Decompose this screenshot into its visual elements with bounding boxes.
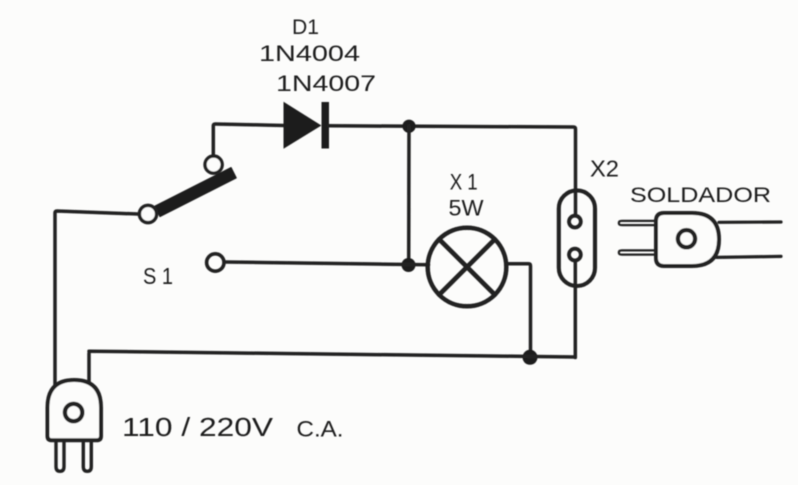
- wire mains-left vertical and horizontal to S1 pole: [55, 211, 138, 400]
- soldador plug face hole: [678, 230, 695, 247]
- svg-text:X 1: X 1: [450, 170, 478, 195]
- svg-text:SOLDADOR: SOLDADOR: [630, 184, 771, 207]
- switch S1 pole contact circle: [139, 205, 156, 222]
- X2 socket body: [559, 190, 595, 286]
- soldador cord top line: [719, 220, 781, 224]
- switch S1 throw contact circle (lower): [207, 254, 224, 271]
- svg-text:1N4007: 1N4007: [276, 71, 376, 96]
- svg-text:X2: X2: [590, 156, 619, 182]
- soldador plug body: [656, 213, 719, 266]
- X2 bottom hole: [569, 249, 581, 261]
- node C (junction dot bottom rail): [523, 350, 538, 365]
- wire node A down to node B: [407, 126, 411, 264]
- soldador plug bottom prong: [619, 250, 656, 254]
- lamp X1 cross: [439, 239, 495, 294]
- node A (junction dot top rail): [402, 120, 415, 133]
- diode D1: [285, 102, 330, 149]
- lamp X1 circle: [428, 228, 507, 307]
- svg-text:110 / 220V: 110 / 220V: [122, 414, 273, 442]
- svg-text:D1: D1: [292, 16, 319, 39]
- node B (junction dot at lamp input): [402, 258, 416, 272]
- plug 110/220 right prong: [83, 441, 91, 472]
- wire X2 bottom hole down to bottom rail: [574, 261, 578, 358]
- wire diode cathode to top-right corner and down to X2 top hole: [329, 126, 576, 216]
- wire mains-right vertical into plug: [89, 351, 91, 395]
- svg-text:5W: 5W: [449, 195, 484, 220]
- plug 110/220 left prong: [56, 441, 64, 472]
- soldador cord bottom line: [717, 256, 782, 257]
- switch S1 blade (closed arm): [155, 168, 236, 217]
- svg-text:S 1: S 1: [143, 263, 173, 289]
- plug 110/220 face hole: [65, 404, 82, 421]
- switch S1 top contact circle: [205, 156, 222, 173]
- wire lamp X1 right side down to node C: [506, 264, 531, 357]
- svg-text:1N4004: 1N4004: [259, 41, 360, 66]
- wire S1 top contact up to top rail: [213, 124, 284, 156]
- plug 110/220 body: [48, 380, 102, 440]
- wire S1 throw contact to lamp X1: [226, 262, 429, 265]
- soldador plug top prong: [619, 221, 656, 225]
- X2 top hole: [569, 216, 581, 228]
- svg-text:C.A.: C.A.: [297, 417, 344, 442]
- wire bottom rail: [89, 351, 575, 357]
